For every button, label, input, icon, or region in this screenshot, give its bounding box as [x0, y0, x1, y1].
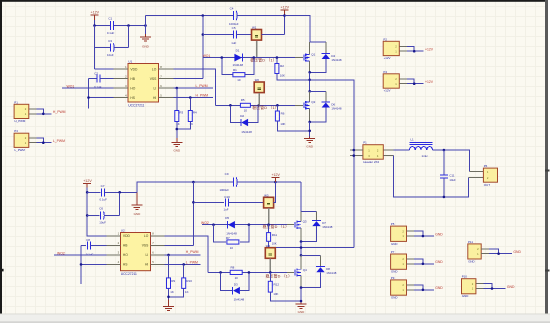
bottom status strip [0, 314, 550, 323]
junction R9/R10 [167, 296, 170, 299]
probe box W4 [265, 248, 275, 259]
svg-text:+12V: +12V [91, 10, 100, 14]
junction C1 left [93, 24, 96, 27]
connector P11 [468, 240, 522, 264]
svg-text:L_PWM: L_PWM [196, 84, 208, 88]
junction output column pin1 [353, 149, 356, 152]
svg-text:1uF: 1uF [224, 208, 229, 212]
IC U2 UCC27211 [107, 229, 165, 276]
capacitor C1 [107, 17, 115, 35]
gray stem of W4 [269, 259, 271, 273]
svg-text:HI: HI [145, 263, 148, 267]
wire VSS vertical x202.8 [202, 16, 204, 79]
transistor Q4 [295, 268, 307, 277]
svg-text:+12V: +12V [83, 179, 92, 183]
connector P1 Header 2X2 [350, 141, 394, 164]
wire HO2 pin3 [54, 254, 107, 256]
svg-text:C2: C2 [94, 71, 98, 75]
diode D7 1N4148 [312, 212, 333, 230]
capacitor C9 [219, 172, 237, 192]
svg-text:P4: P4 [383, 70, 387, 74]
wire C6 branch [87, 192, 120, 215]
wire C10 row [193, 201, 224, 203]
wire C8 to HB pin [91, 244, 107, 246]
svg-text:HS: HS [123, 263, 128, 267]
gate stub Q4 [287, 271, 294, 273]
connector P3 [14, 129, 65, 152]
resistor R3 1K [175, 88, 184, 126]
svg-text:R11: R11 [272, 233, 278, 237]
wire VSS pin7 [174, 78, 203, 80]
ground GND (under R3 R4) [171, 138, 182, 153]
svg-text:UCC27211: UCC27211 [121, 272, 137, 276]
wire R3 bottom to GND [176, 122, 178, 138]
svg-text:R4: R4 [193, 111, 197, 115]
resistor R10 1K [182, 264, 193, 293]
svg-text:+12V: +12V [271, 173, 280, 177]
connector P2 [383, 37, 434, 60]
svg-text:GND: GND [391, 270, 397, 274]
svg-text:GND: GND [134, 212, 142, 216]
svg-text:VSS: VSS [142, 244, 149, 248]
svg-text:1K: 1K [185, 290, 189, 294]
capacitor C6 [99, 206, 106, 224]
Q2 drain stub [309, 91, 311, 102]
wire R9 bottom [168, 288, 170, 299]
gray stem of W3 [268, 208, 270, 225]
svg-text:R9: R9 [171, 279, 175, 283]
svg-text:10K: 10K [272, 242, 277, 246]
svg-text:1N4148: 1N4148 [233, 63, 244, 67]
svg-text:H_PWM: H_PWM [15, 119, 26, 123]
junction HI2 / R10 [182, 263, 185, 266]
diode D3 1N4148 [233, 283, 245, 302]
svg-text:P1: P1 [363, 141, 367, 145]
connector P5 [391, 222, 444, 246]
Q3 drain stub [300, 212, 302, 222]
wire C6 row right [104, 214, 120, 216]
svg-text:C4: C4 [230, 6, 234, 10]
gate row 2 wire [216, 104, 296, 106]
wire tee to D6 [310, 90, 326, 92]
window top border [0, 0, 548, 2]
junction bypass2 right [258, 104, 261, 107]
svg-text:+12V: +12V [384, 56, 391, 60]
svg-text:1mH: 1mH [422, 154, 428, 158]
svg-text:1N4148: 1N4148 [331, 107, 342, 111]
wire D6 anode join [310, 108, 326, 122]
svg-text:L1: L1 [410, 137, 414, 141]
Q3 source stub [300, 228, 302, 242]
capacitor C7 [99, 184, 107, 201]
svg-text:GND: GND [435, 260, 443, 264]
svg-text:GND: GND [298, 310, 306, 314]
svg-text:W4: W4 [266, 244, 271, 248]
junction output column pin3 [353, 154, 356, 157]
svg-text:GND: GND [468, 259, 474, 263]
junction R12 row [300, 300, 303, 303]
junction Q1 source [308, 71, 311, 74]
svg-text:0.1uF: 0.1uF [107, 31, 115, 35]
junction LI2 / R9 [167, 254, 170, 257]
svg-text:R1: R1 [233, 68, 237, 72]
wire C2 to HB pin2 [100, 78, 114, 80]
svg-text:1000uF: 1000uF [219, 188, 229, 192]
svg-text:HI: HI [153, 96, 156, 100]
svg-text:P10: P10 [462, 275, 468, 279]
ground GND (bottom-left) [131, 192, 142, 216]
wire C1 row left [95, 25, 111, 27]
svg-text:C11: C11 [449, 173, 454, 177]
svg-text:1N4148: 1N4148 [234, 297, 245, 301]
svg-text:R2: R2 [280, 64, 284, 68]
wire C10 to W3 [228, 201, 263, 203]
Q4 source stub [300, 276, 302, 288]
wire pin2 to L1 [394, 149, 410, 151]
wire LI2 pin [165, 254, 201, 256]
wire HS2 pin4 [81, 263, 107, 265]
wire switch node vertical [309, 72, 311, 91]
junction bypass4 left [219, 271, 222, 274]
junction D5 bypass right [248, 223, 251, 226]
wire up to C9 rail [137, 182, 233, 192]
svg-text:+12V: +12V [425, 80, 434, 84]
svg-text:P1: P1 [14, 100, 18, 104]
resistor R4 1K [188, 98, 197, 127]
junction Q3 source [300, 240, 303, 243]
wire D7 anode join [301, 226, 317, 241]
capacitor C3 [107, 39, 114, 57]
svg-text:1N4148: 1N4148 [331, 58, 342, 62]
svg-text:L_PWM: L_PWM [186, 261, 198, 265]
svg-text:OUT: OUT [484, 183, 491, 187]
svg-text:+12V: +12V [281, 6, 290, 10]
power +12V (top-left) [91, 10, 100, 20]
wire D2 bypass [230, 105, 258, 122]
svg-text:GND: GND [142, 45, 150, 49]
resistor R1 10 [233, 68, 245, 82]
wire HS pin4 [89, 97, 114, 99]
svg-text:HO: HO [123, 253, 128, 257]
probe box W2 [254, 82, 264, 93]
inductor L1 1mH [410, 137, 433, 158]
resistor R5 10 [240, 98, 250, 113]
svg-text:10: 10 [244, 109, 248, 113]
svg-text:1N4148: 1N4148 [326, 271, 337, 275]
probe box W1 [252, 30, 262, 41]
svg-text:GND: GND [391, 242, 397, 246]
wire R7 bypass [214, 225, 249, 242]
wire top rail y15.5 right of C4 [236, 15, 284, 17]
junction +12V drop [283, 14, 286, 17]
svg-text:10: 10 [230, 246, 234, 250]
junction at GND stem [144, 24, 147, 27]
svg-text:GND: GND [507, 285, 515, 289]
wire return from pin4 to OUT [394, 156, 469, 197]
svg-text:0.1uF: 0.1uF [86, 252, 94, 256]
wire HI pin5 [174, 97, 214, 99]
svg-text:GND: GND [391, 296, 397, 300]
junction C10 row [192, 201, 195, 204]
svg-text:U1: U1 [128, 60, 132, 64]
junction C6 row [86, 214, 89, 217]
svg-text:R5: R5 [241, 98, 245, 102]
svg-text:VDD: VDD [130, 67, 138, 71]
wire +12V rail to bridge [285, 16, 326, 42]
capacitor C5 [231, 26, 236, 45]
svg-text:L_PWM: L_PWM [15, 148, 26, 152]
junction C7 row [86, 191, 89, 194]
svg-text:C3: C3 [108, 39, 112, 43]
right edge tick 2 [545, 270, 550, 272]
svg-text:LO: LO [152, 67, 157, 71]
transistor Q2 [304, 100, 316, 109]
junction HS branch [87, 96, 90, 99]
svg-text:R12: R12 [274, 282, 280, 286]
wire +12V to C1 row [94, 20, 96, 26]
svg-text:C10: C10 [224, 195, 230, 199]
wire D8 anode join [301, 272, 321, 287]
junction LI / R3 [176, 87, 179, 90]
wire R10 bottom join [169, 288, 184, 296]
wire C5 to W1 box [236, 34, 251, 36]
svg-text:R8: R8 [231, 266, 235, 270]
svg-text:10uF: 10uF [449, 178, 456, 182]
svg-text:C9: C9 [225, 172, 229, 176]
connector P6 OUT [483, 164, 497, 187]
svg-text:P6: P6 [484, 164, 488, 168]
wire VSS2 vertical x193.4 [192, 182, 194, 245]
diode D8 1N4148 [316, 255, 337, 275]
svg-text:P2: P2 [383, 37, 387, 41]
svg-text:1N4148: 1N4148 [241, 130, 252, 134]
svg-text:C8: C8 [86, 238, 90, 242]
wire VSS2 pin [165, 244, 194, 246]
wire C3 row right [114, 47, 129, 49]
wire R6 bottom to source node [277, 121, 309, 131]
window left border [0, 0, 2, 314]
svg-text:C5: C5 [232, 26, 236, 30]
ground (under R9 R10) [163, 299, 174, 310]
wire LI pin6 [174, 87, 214, 89]
wire L1 to OUT corner [433, 150, 470, 172]
svg-text:VDD: VDD [123, 234, 131, 238]
wire +12V down to VDD [87, 188, 106, 236]
junction bypass2 left [229, 104, 232, 107]
wire R2 bottom to switch node [277, 74, 310, 80]
svg-text:P5: P5 [391, 222, 395, 226]
svg-text:GND: GND [173, 148, 181, 152]
svg-text:GND: GND [435, 232, 443, 236]
resistor R9 1K [167, 255, 176, 294]
svg-text:10K: 10K [273, 292, 278, 296]
svg-text:10uF: 10uF [107, 53, 114, 57]
power +12V (bottom-left) [83, 179, 92, 188]
junction top rail / VSS vertical [202, 14, 205, 17]
gate stub Q1 [295, 57, 303, 59]
wire HO pin3 [62, 87, 114, 89]
wire switch node 2 [300, 242, 302, 256]
junction bypass4 right [248, 271, 251, 274]
svg-text:D2: D2 [240, 114, 244, 118]
svg-text:GND: GND [306, 144, 314, 148]
wire D3 bypass [221, 272, 249, 290]
svg-text:U2: U2 [121, 229, 125, 233]
svg-text:10uF: 10uF [99, 220, 106, 224]
svg-text:L_PWM: L_PWM [53, 139, 65, 143]
svg-text:H_PWM: H_PWM [196, 94, 209, 98]
wire R4 bottom join [177, 122, 191, 130]
wire C3 row left [95, 47, 111, 49]
gate row 4 wire [208, 271, 287, 273]
wire C9 right to +12V [236, 181, 301, 183]
junction R12 top [269, 271, 272, 274]
svg-text:10K: 10K [280, 122, 285, 126]
connector P10 [462, 275, 515, 299]
gray stem of W2 [258, 93, 260, 105]
svg-text:+12V: +12V [425, 47, 434, 51]
gate stub Q3 [287, 224, 294, 226]
wire R11 bottom to switch node [269, 241, 354, 247]
svg-text:Header 2X2: Header 2X2 [363, 160, 379, 164]
wire WO2 gate row [202, 224, 287, 226]
junction R2 top [276, 56, 279, 59]
junction R6 top [276, 104, 279, 107]
transistor Q1 [304, 52, 316, 61]
svg-text:W2: W2 [255, 78, 260, 82]
junction Q2 source [308, 121, 311, 124]
junction Q4 source [300, 286, 303, 289]
svg-text:1uF: 1uF [231, 41, 236, 45]
wire LO pin8 to corner [174, 69, 216, 105]
resistor R6 10K [275, 105, 285, 126]
svg-text:C7: C7 [101, 184, 105, 188]
svg-text:GND: GND [435, 286, 443, 290]
svg-text:Q1: Q1 [311, 52, 315, 56]
wire corner up to +12V rail [284, 16, 286, 35]
wire LO2 to corner [165, 236, 208, 273]
wire VDD pin1 [95, 68, 114, 70]
junction C11 top [443, 149, 446, 152]
svg-text:H_PWM: H_PWM [53, 110, 66, 114]
resistor R7 10 [226, 236, 239, 250]
connector P9 [391, 276, 444, 300]
svg-text:HB: HB [130, 77, 135, 81]
power +12V (bottom-mid) [271, 173, 280, 182]
wire top rail y15.5 left of C4 [146, 15, 234, 17]
capacitor C4 [229, 6, 239, 26]
power +12V (top-mid) [281, 6, 290, 16]
diode D6 1N4148 [321, 91, 342, 110]
svg-text:P11: P11 [468, 240, 473, 244]
svg-text:0.1uF: 0.1uF [99, 197, 107, 201]
svg-text:稳压管D （1）: 稳压管D （1） [252, 105, 278, 110]
svg-text:HB: HB [123, 244, 128, 248]
connector P4 [383, 70, 434, 93]
svg-text:1N4148: 1N4148 [322, 225, 333, 229]
junction +12V drop bottom [274, 181, 277, 184]
svg-text:H_PWM: H_PWM [186, 250, 199, 254]
wire W1 to +12V corner [262, 34, 285, 36]
svg-text:LO: LO [144, 234, 149, 238]
probe box W3 [264, 197, 274, 208]
wire C2 left lead and vertical [89, 79, 97, 109]
svg-text:P7: P7 [391, 250, 395, 254]
resistor R11 10K [267, 225, 278, 246]
svg-text:C1: C1 [108, 17, 112, 21]
wire left rail down [94, 26, 96, 70]
svg-text:LI: LI [146, 253, 149, 257]
ground GND (under Q4) [296, 303, 307, 314]
capacitor C2 [94, 71, 102, 89]
Q1 drain stub [309, 42, 311, 55]
right edge rule [545, 0, 548, 314]
capacitor C11 10uF [440, 150, 456, 197]
svg-text:R6: R6 [281, 112, 285, 116]
svg-text:1N4148: 1N4148 [226, 231, 237, 235]
svg-text:LI: LI [154, 86, 157, 90]
wire C7 row right [104, 191, 137, 193]
wire down to GND [309, 122, 311, 137]
junction HI / R4 [189, 96, 192, 99]
junction switch node / R2 row [308, 79, 311, 82]
svg-text:D3: D3 [234, 283, 238, 287]
wire C5 row left [203, 34, 234, 36]
junction R3/R4 [176, 128, 179, 131]
svg-text:HS: HS [130, 96, 135, 100]
svg-text:GND: GND [462, 294, 468, 298]
diode D1 1N4148 [233, 49, 244, 67]
svg-text:UCC27211: UCC27211 [128, 103, 144, 107]
svg-text:10: 10 [237, 78, 241, 82]
ground GND (top-left) [140, 16, 151, 49]
resistor R8 10 [230, 266, 242, 280]
junction C5 row [202, 33, 205, 36]
svg-text:1K: 1K [170, 290, 174, 294]
transistor Q3 [295, 219, 307, 228]
wire D4 anode to source node [310, 59, 326, 72]
svg-text:10: 10 [235, 276, 239, 280]
svg-text:+12V: +12V [384, 89, 391, 93]
junction D1 right [253, 56, 256, 59]
junction C1 right / C3 branch [127, 24, 130, 27]
connector P1 [14, 100, 66, 123]
svg-text:Q4: Q4 [303, 268, 307, 272]
junction R6 row [308, 130, 311, 133]
gate stub Q2 [295, 104, 303, 106]
wire C7 row left [87, 191, 100, 193]
wire R1 bypass [222, 58, 254, 75]
svg-text:HO: HO [130, 86, 135, 90]
diode D4 1N4148 [321, 42, 342, 62]
junction switch node 2 / R11 row [300, 246, 303, 249]
svg-text:稳压管D （1）: 稳压管D （1） [263, 224, 290, 229]
left ruler tick [0, 269, 4, 272]
diode D5 1N4148 [225, 216, 237, 235]
svg-text:R7: R7 [226, 236, 230, 240]
junction C11 bottom [443, 196, 446, 199]
svg-text:D5: D5 [225, 216, 229, 220]
junction R11 top [267, 223, 270, 226]
wire C3 branch vertical [128, 26, 130, 48]
right margin [548, 0, 550, 314]
connector P7 [391, 250, 444, 274]
capacitor C8 [86, 238, 94, 256]
wire switch node to output column [310, 80, 354, 248]
Q4 drain stub [300, 255, 302, 269]
wire down to GND2 [300, 288, 302, 303]
wire C8 left vertical [81, 245, 86, 284]
